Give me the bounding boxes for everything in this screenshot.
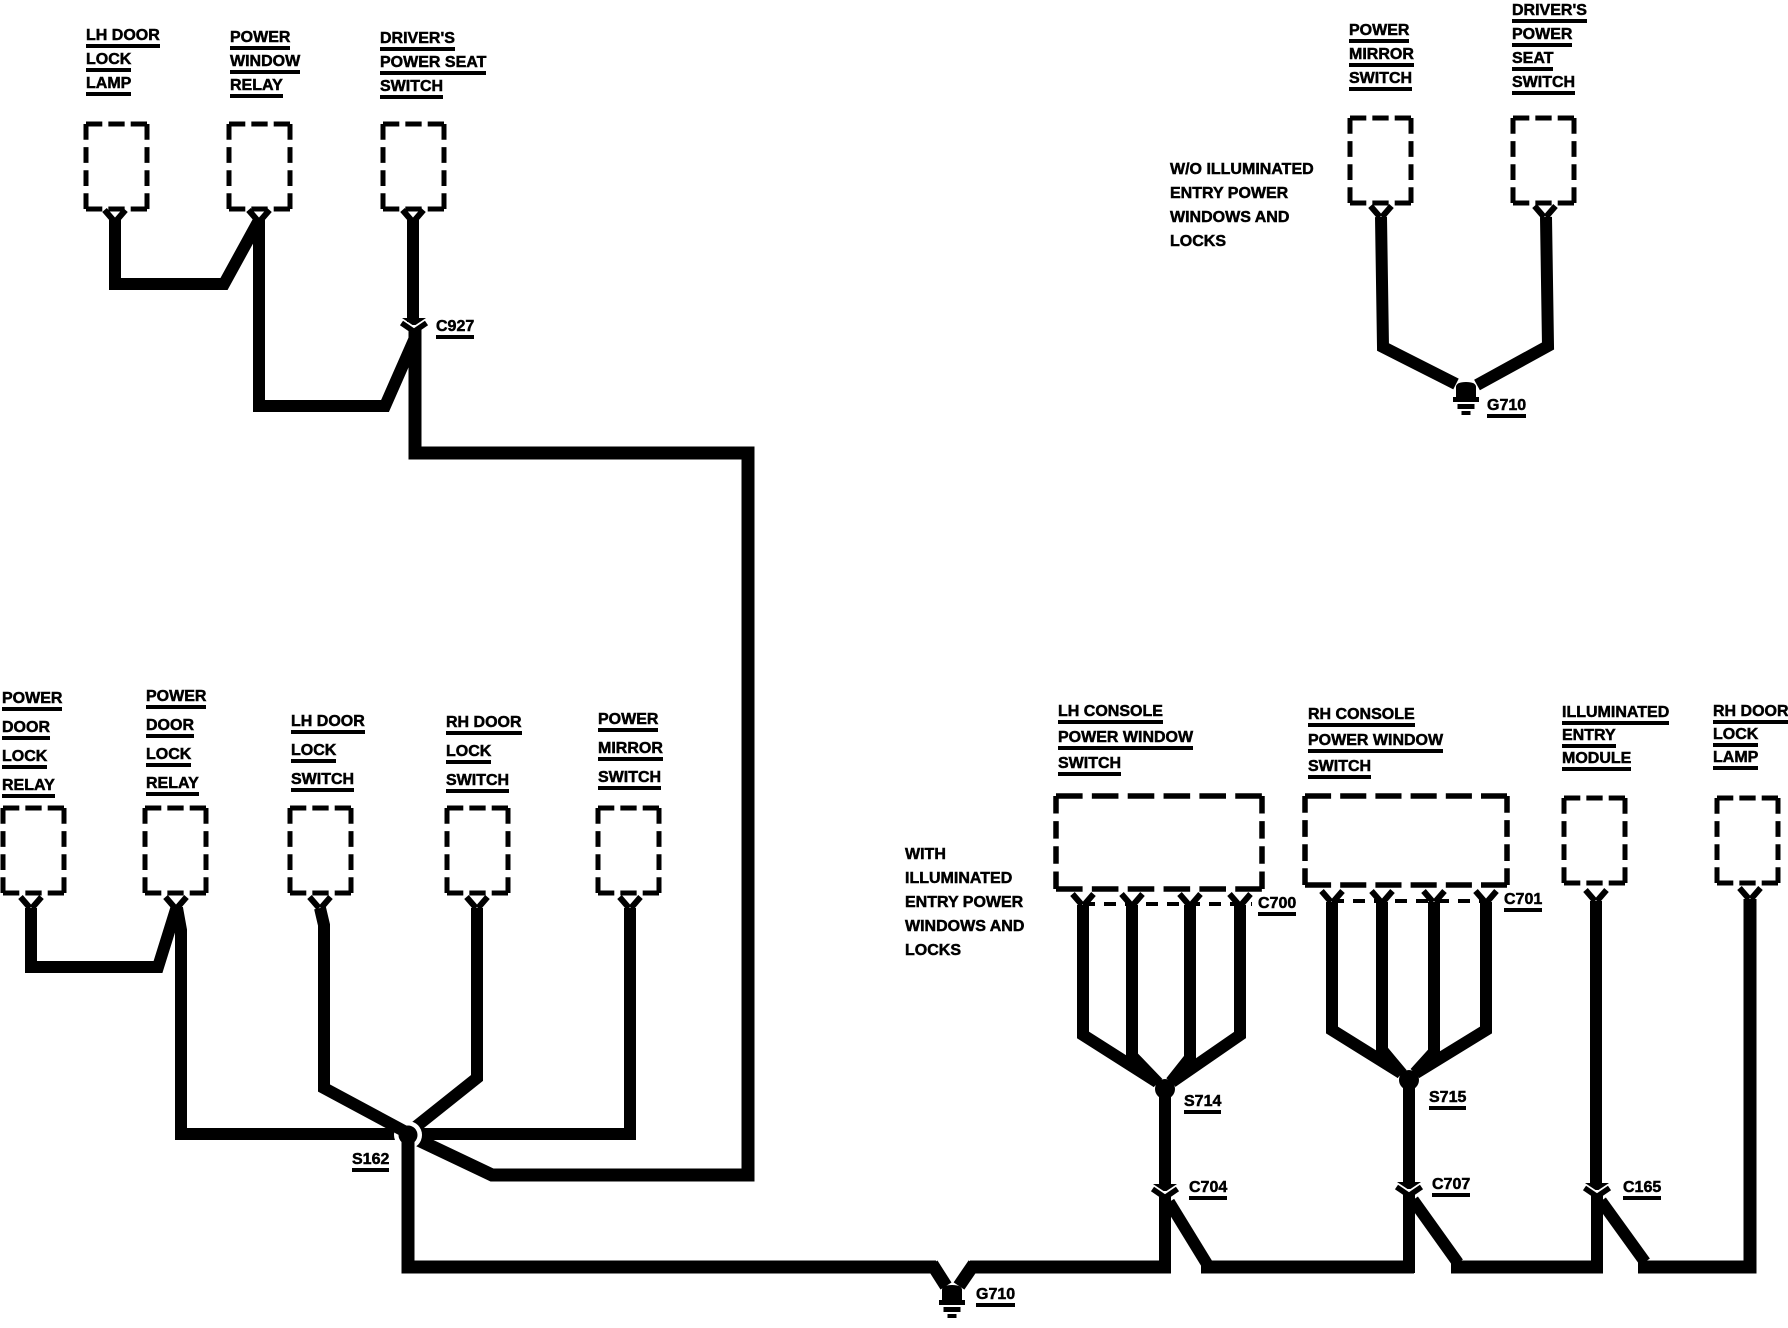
pin collar: power mirror switch: [620, 897, 641, 908]
pin collar: RH console pin 1: [1322, 891, 1343, 902]
wire: below C707 down to bottom run: [1403, 1193, 1415, 1273]
label: LH door lock lamp: [86, 24, 160, 96]
pin collar: power window relay: [249, 210, 270, 221]
pin collar: RH door lock lamp: [1740, 888, 1761, 899]
pin collar: power mirror switch (top right): [1371, 206, 1392, 217]
wire: power door lock relay 2 down then right to S162: [177, 908, 403, 1134]
ref label G710 (top right): [1487, 396, 1526, 416]
pin collar: LH door lock switch: [310, 897, 331, 908]
pin collar: RH console pin 4: [1476, 891, 1497, 902]
component box: driver's power seat switch: [383, 124, 444, 209]
wire: C704 diagonal to bottom run: [1169, 1202, 1207, 1264]
ref label G710 (bottom): [976, 1285, 1015, 1305]
wire: power window relay down to C927 via horizontal: [259, 220, 414, 406]
component box: RH door lock lamp: [1717, 798, 1778, 883]
pin collar: driver's power seat switch: [403, 210, 424, 221]
pin collar: power door lock relay 1: [21, 897, 42, 908]
pin collar: driver's power seat switch (top right): [1535, 206, 1556, 217]
ref label S714: [1184, 1092, 1221, 1112]
ref label C701: [1504, 890, 1542, 910]
component box: power door lock relay 2: [145, 808, 206, 893]
ground G710 (bottom): [939, 1285, 965, 1318]
pin collar: LH console pin 3: [1180, 894, 1201, 905]
splice S162 white ring: [394, 1121, 422, 1149]
connector C927: [402, 318, 427, 332]
label: RH door lock lamp: [1713, 700, 1788, 769]
wire: RH console switch pin 4 to S715: [1416, 902, 1486, 1073]
component box: illuminated entry module: [1564, 798, 1625, 883]
wire: below C165 down to bottom run: [1591, 1194, 1603, 1273]
wire: dip diagonal left into ground G710: [932, 1264, 946, 1286]
label: power window relay: [230, 26, 300, 98]
wire: driver's power seat switch (top right) to ground G710: [1477, 217, 1548, 385]
label: RH door lock switch: [446, 708, 522, 795]
ground G710 (top right): [1453, 382, 1479, 415]
connector face C700 dashed line: [1083, 902, 1252, 906]
ref label S162: [352, 1150, 389, 1170]
pin collar: illuminated entry module: [1586, 890, 1607, 901]
label: power mirror switch: [598, 705, 663, 792]
wire: bottom run from C704 to C707 drop: [1201, 1261, 1414, 1274]
component box: LH console power window switch: [1056, 796, 1262, 889]
pin collar: RH door lock switch: [467, 897, 488, 908]
wire: C165 diagonal to bottom run: [1601, 1201, 1645, 1262]
label: RH console power window switch: [1308, 702, 1443, 780]
ref label C704: [1189, 1178, 1227, 1198]
label: power door lock relay 1: [2, 684, 62, 800]
label: LH door lock switch: [291, 707, 365, 794]
pin collar: LH console pin 1: [1073, 894, 1094, 905]
connector C704: [1153, 1184, 1178, 1198]
splice S714: [1155, 1079, 1175, 1099]
connector C165: [1585, 1183, 1610, 1197]
note: w/o illuminated entry power windows and locks: [1170, 158, 1314, 254]
wire: LH console switch pin 1 to S714: [1083, 905, 1157, 1082]
wire: bottom run from ground dip right to C704 drop: [970, 1261, 1171, 1274]
pin collar: LH door lock lamp: [105, 210, 126, 221]
pin collar: power door lock relay 2: [166, 897, 187, 908]
ref label S715: [1429, 1088, 1466, 1108]
pin collar: LH console pin 4: [1230, 894, 1251, 905]
component box: LH door lock switch: [290, 808, 351, 893]
wire: dip diagonal right out of ground G710: [959, 1264, 974, 1286]
wire: RH console switch pin 1 to S715: [1332, 902, 1401, 1073]
wire: LH door lock switch down/diag into S162: [320, 908, 404, 1131]
wire: LH console switch pin 4 to S714: [1172, 905, 1240, 1082]
component box: RH door lock switch: [447, 808, 508, 893]
wire: bottom run from C707 to C165 drop: [1451, 1261, 1603, 1274]
component box: power door lock relay 1: [3, 808, 64, 893]
wire: LH console switch pin 3 to S714: [1171, 905, 1190, 1082]
wire: RH console switch pin 3 to S715: [1415, 902, 1434, 1073]
label: power mirror switch (top right): [1349, 19, 1414, 91]
label: driver's power seat switch: [380, 27, 486, 99]
ref label C927: [436, 317, 474, 337]
splice S162: [399, 1126, 418, 1145]
wire: LH console switch pin 2 to S714: [1132, 905, 1158, 1083]
label: LH console power window switch: [1058, 699, 1193, 777]
ref label C700: [1258, 894, 1296, 914]
connector face C701 dashed line: [1332, 899, 1495, 903]
wire: below C704 down to bottom run: [1159, 1195, 1171, 1273]
wire: LH door lock lamp down/right to power window relay: [115, 220, 258, 284]
ref label C707: [1432, 1175, 1470, 1195]
wire: S715 down to C707: [1403, 1080, 1415, 1184]
connector C707: [1397, 1182, 1422, 1196]
wire: bottom run from C165 to RH door lock lamp riser: [1638, 899, 1750, 1267]
component box: power mirror switch: [598, 808, 659, 893]
component box: RH console power window switch: [1305, 796, 1507, 885]
label: power door lock relay 2: [146, 682, 206, 798]
wire: power mirror switch down then left to S162 (gapped at splice): [419, 908, 630, 1134]
note: with illuminated entry power windows and locks: [905, 843, 1024, 963]
wire: power mirror switch (top right) to ground G710: [1381, 217, 1456, 384]
component box: LH door lock lamp: [86, 124, 147, 209]
component box: power mirror switch (top right): [1350, 118, 1411, 203]
wire: driver's power seat switch down to C927: [407, 220, 419, 322]
component box: driver's power seat switch (top right): [1513, 118, 1574, 203]
ref label C165: [1623, 1178, 1661, 1198]
label: illuminated entry module: [1562, 701, 1669, 770]
wire: C707 diagonal to bottom run: [1413, 1200, 1458, 1263]
wire: RH console switch pin 2 to S715: [1382, 902, 1402, 1074]
pin collar: RH console pin 3: [1424, 891, 1445, 902]
component box: power window relay: [229, 124, 290, 209]
label: driver's power seat switch (top right): [1512, 0, 1587, 95]
wire: illuminated entry module down to C165: [1590, 901, 1602, 1185]
wire: S162 down then right along bottom to ground dip: [408, 1130, 936, 1267]
wire: C927 loop down, right, down, left to S162 (gapped at splice): [412, 329, 748, 1175]
pin collar: RH console pin 2: [1372, 891, 1393, 902]
wire: S714 down to C704: [1159, 1089, 1171, 1186]
wire: power door lock relay 1 down/right to relay 2: [31, 906, 177, 967]
splice S715: [1399, 1070, 1419, 1090]
wire: RH door lock switch down/diag to S162 (gapped at splice): [413, 908, 477, 1129]
pin collar: LH console pin 2: [1122, 894, 1143, 905]
